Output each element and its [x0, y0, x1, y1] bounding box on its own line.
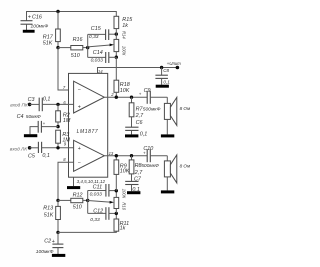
node output 1 R18 [115, 96, 118, 99]
svg-text:C16: C16 [32, 14, 42, 20]
svg-text:8 Ом: 8 Ом [180, 164, 191, 169]
capacitor C12 [88, 207, 117, 223]
svg-text:R16: R16 [73, 37, 83, 43]
svg-text:LM1877: LM1877 [77, 129, 99, 135]
ground C16 [23, 30, 35, 33]
svg-text:8 Ом: 8 Ом [180, 106, 191, 111]
svg-text:R14: R14 [122, 31, 127, 39]
svg-text:500мкФ: 500мкФ [143, 107, 161, 113]
resistor R15 [114, 16, 133, 34]
pin 8 label [63, 157, 66, 162]
capacitor C14 [88, 50, 117, 63]
svg-text:C2: C2 [44, 238, 51, 244]
svg-text:C7: C7 [134, 176, 142, 182]
svg-text:100К: 100К [122, 189, 127, 199]
svg-text:+: + [78, 146, 81, 152]
ground C6 [125, 134, 138, 137]
svg-text:10K: 10K [120, 88, 130, 94]
svg-text:C12: C12 [93, 208, 103, 214]
capacitor C6 [125, 120, 147, 137]
svg-text:0,1: 0,1 [163, 80, 170, 85]
svg-text:+: + [143, 151, 146, 156]
op-amp U1 LM1877 box [69, 73, 108, 177]
svg-text:100мкФ: 100мкФ [36, 249, 54, 255]
node R17/R16 junction [56, 46, 59, 49]
node R12 left [56, 199, 59, 202]
capacitor C9 [139, 88, 168, 112]
svg-text:100К: 100К [122, 46, 127, 56]
potentiometer R10 [114, 189, 127, 214]
resistor R12 [58, 193, 88, 211]
pin 7 label [63, 85, 66, 90]
node D [115, 212, 118, 215]
pin 13 label [109, 151, 114, 156]
resistor R17 [43, 12, 61, 48]
svg-text:R10: R10 [122, 202, 127, 210]
pin 2 label [110, 92, 114, 97]
svg-text:510: 510 [73, 205, 82, 211]
ground BA1 [161, 134, 174, 137]
svg-text:2,7: 2,7 [135, 113, 144, 119]
wiper arrow R14 [88, 44, 114, 47]
ground BA2 [161, 190, 174, 193]
wire output 1 [104, 96, 147, 98]
svg-text:0,33: 0,33 [90, 217, 100, 223]
op-amp A2 triangle bottom [74, 140, 105, 171]
node feedback tap 2 [86, 191, 89, 214]
capacitor C7 [125, 176, 142, 193]
wiper arrow R10 [88, 201, 114, 204]
svg-text:1M: 1M [62, 138, 70, 144]
wire top supply rail [27, 12, 117, 21]
svg-text:R7: R7 [136, 107, 144, 113]
node bottom rail [56, 231, 59, 234]
svg-text:2,7: 2,7 [134, 170, 143, 176]
speaker BA1 [164, 97, 191, 134]
svg-text:+: + [52, 239, 55, 245]
node top rail / R17 [56, 10, 59, 13]
wire pin 8 down [58, 162, 74, 200]
node input 2 [56, 146, 59, 149]
ground C7 [127, 191, 140, 194]
svg-text:0,033: 0,033 [90, 192, 103, 198]
op-amp A1 triangle top [74, 81, 105, 113]
svg-text:0,1: 0,1 [42, 153, 50, 159]
node output 2 R9 [115, 154, 118, 157]
ground IC [67, 177, 80, 189]
capacitor C16 [21, 14, 49, 30]
resistor R11 [114, 213, 129, 231]
svg-text:+: + [139, 91, 142, 96]
wire to pin 7 [58, 48, 74, 90]
svg-text:C15: C15 [91, 26, 102, 32]
svg-text:+: + [78, 105, 81, 111]
resistor R16 [58, 37, 88, 59]
svg-text:51K: 51K [44, 213, 54, 219]
node A [115, 32, 118, 35]
node input 1 [56, 103, 59, 106]
svg-text:R13: R13 [43, 206, 53, 212]
node output 1 zobel [130, 96, 133, 99]
pin 9 label [64, 142, 67, 147]
svg-text:0,1: 0,1 [43, 97, 51, 103]
svg-text:510: 510 [71, 53, 80, 59]
capacitor C8 [155, 68, 170, 85]
svg-text:C3: C3 [28, 97, 35, 103]
terminal +Upit [167, 61, 182, 69]
capacitor C5 [28, 142, 74, 160]
capacitor C15 [88, 26, 117, 40]
svg-text:0,1: 0,1 [140, 131, 148, 137]
svg-text:100мкФ: 100мкФ [31, 24, 49, 30]
resistor R13 [43, 200, 60, 232]
svg-text:вход ПК: вход ПК [10, 103, 28, 108]
capacitor C2 [36, 232, 64, 255]
resistor R7 [129, 97, 144, 127]
resistor R3 [56, 130, 71, 148]
speaker BA2 [164, 155, 191, 191]
svg-text:+Uпит: +Uпит [167, 61, 182, 66]
node B [115, 56, 118, 59]
capacitor C11 [88, 184, 117, 198]
svg-text:1M: 1M [63, 118, 71, 124]
svg-text:C8: C8 [163, 68, 169, 73]
node C8 tap [160, 66, 163, 69]
wire output 2 [104, 155, 147, 157]
svg-text:C4: C4 [17, 114, 24, 120]
capacitor C10 [143, 146, 167, 162]
svg-text:C9: C9 [144, 88, 151, 94]
svg-text:R12: R12 [73, 193, 83, 199]
resistor R2 [56, 104, 71, 126]
svg-text:−: − [78, 87, 81, 93]
wire node B to R18 [115, 57, 117, 80]
wire bottom rail [58, 231, 116, 232]
resistor R9 [114, 156, 130, 191]
svg-text:500мкФ: 500мкФ [141, 163, 159, 169]
svg-text:13: 13 [109, 151, 114, 156]
svg-text:3,4,5,10,11,12: 3,4,5,10,11,12 [77, 179, 106, 184]
capacitor C3 [28, 97, 74, 112]
svg-text:+: + [43, 121, 46, 126]
svg-text:вход ЛК: вход ЛК [10, 146, 27, 151]
svg-text:51K: 51K [43, 40, 53, 46]
svg-text:0,033: 0,033 [91, 57, 104, 63]
ground C2 [52, 254, 65, 257]
svg-text:0,33: 0,33 [89, 34, 99, 40]
svg-text:C6: C6 [136, 120, 143, 126]
svg-text:1k: 1k [122, 23, 128, 29]
svg-text:+: + [28, 14, 31, 20]
resistor R18 [114, 80, 130, 97]
ground C8 [156, 85, 169, 88]
node feedback tap [86, 34, 89, 57]
node C [115, 189, 118, 192]
capacitor C4 [17, 114, 58, 135]
svg-text:−: − [78, 161, 81, 167]
svg-text:10K: 10K [120, 168, 130, 174]
terminal input PK [10, 103, 31, 108]
svg-text:C14: C14 [93, 50, 103, 56]
terminal input LK [10, 146, 32, 151]
ground C4 [24, 134, 37, 137]
potentiometer R14 [114, 31, 127, 57]
svg-text:1k: 1k [120, 225, 126, 231]
pin 14 wire and +U rail [98, 68, 178, 75]
pin 6 label [63, 100, 66, 105]
svg-text:C11: C11 [93, 184, 103, 190]
pins 3,4,5,10,11,12 label [77, 179, 106, 184]
node output 2 zobel [130, 154, 133, 157]
node bias [56, 125, 59, 128]
svg-text:C5: C5 [28, 153, 36, 159]
svg-text:50мкФ: 50мкФ [26, 114, 41, 120]
resistor R8 [129, 156, 159, 182]
